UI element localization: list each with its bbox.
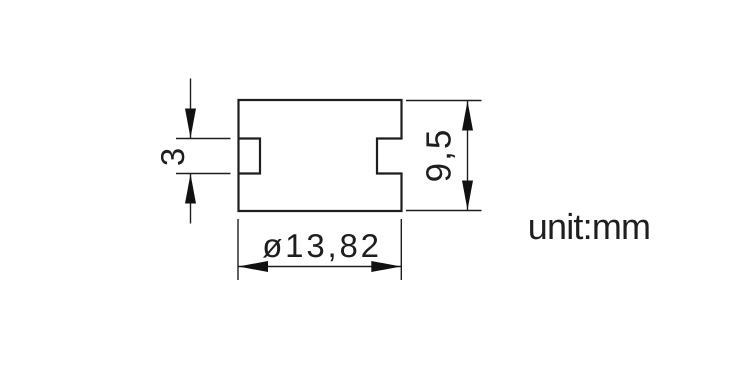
svg-text:ø13,82: ø13,82 [262,227,382,264]
svg-text:3: 3 [154,148,191,166]
svg-text:unit:mm: unit:mm [528,206,650,247]
svg-text:9,5: 9,5 [420,128,459,183]
